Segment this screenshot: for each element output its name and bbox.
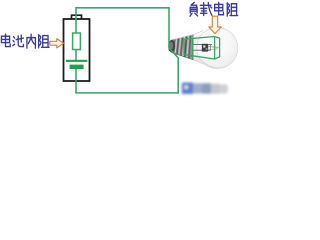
filament lead wires	[192, 44, 213, 46]
wire resistor to battery plate	[75, 49, 77, 60]
base top highlight	[173, 35, 193, 40]
wire battery bar down through box bottom	[75, 68, 77, 93]
battery cap terminal	[72, 15, 82, 19]
bulb glass globe	[197, 27, 238, 68]
bulb glass neck	[193, 32, 208, 64]
filament mount blob	[202, 44, 208, 52]
resistor r (internal resistance)	[73, 33, 81, 50]
green highlight box around filament (3d)	[184, 37, 220, 60]
filament support wires	[208, 46, 218, 49]
glyph 负	[190, 2, 198, 16]
wire from bulb base down to bottom wire	[169, 40, 178, 94]
glyph 内	[27, 34, 35, 48]
wire right upper vertical to bulb tip	[168, 8, 170, 40]
base tip contact	[168, 40, 175, 53]
glass shading bottom	[200, 57, 227, 68]
watermark blobs bottom right	[182, 83, 228, 95]
glyph 池	[13, 35, 24, 46]
base thread ridges	[174, 36, 193, 59]
battery long thin plate	[66, 60, 88, 62]
wire bottom horizontal	[75, 92, 179, 94]
glyph 载	[200, 2, 212, 15]
battery box	[64, 19, 90, 81]
wire top horizontal	[75, 7, 170, 9]
filament stem vertical	[210, 44, 212, 50]
battery short thick plate	[70, 65, 84, 69]
neck outline top	[193, 30, 204, 35]
arrow down (orange hollow)	[209, 16, 221, 33]
neck outline bottom	[193, 60, 204, 65]
wire top vertical from battery cap	[75, 8, 77, 33]
label 电池内阻 (blue)	[1, 34, 10, 46]
arrow right (orange hollow)	[50, 39, 64, 48]
bulb screw base body	[172, 35, 193, 60]
